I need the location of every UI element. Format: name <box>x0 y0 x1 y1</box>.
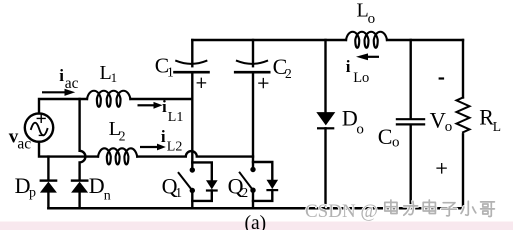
wire Do top <box>324 40 326 112</box>
node Q2 bottom dot <box>250 188 255 193</box>
diode DQ1 <box>206 180 218 189</box>
svg-text:L: L <box>493 119 501 134</box>
svg-text:ac: ac <box>65 75 79 92</box>
arrow i_Lo <box>366 56 379 58</box>
Vo minus <box>439 77 445 79</box>
wire Q1 bottom <box>191 191 193 209</box>
source vac circle <box>25 113 53 141</box>
wire node B vertical <box>252 72 254 169</box>
wire RL bottom <box>462 134 464 208</box>
capacitor plus marks <box>197 78 447 174</box>
node Q2 top dot <box>250 167 255 172</box>
diode DQ1 wiring <box>192 162 212 180</box>
svg-text:(a): (a) <box>245 213 267 230</box>
wire C1 top <box>191 40 193 66</box>
wire top rail left <box>192 39 346 41</box>
svg-text:i: i <box>346 57 351 76</box>
wire Dp to rail <box>47 193 49 209</box>
wire top rail right <box>387 39 463 41</box>
arrow i_L1 <box>138 104 154 106</box>
wire bottom rail <box>48 207 463 210</box>
watermark char 电 <box>385 200 397 214</box>
diode Dp <box>40 182 57 193</box>
node Q1 bottom dot <box>190 188 195 193</box>
inductor L1 <box>87 91 130 107</box>
capacitor C1 straight plate <box>175 71 209 74</box>
wire node A vertical <box>191 72 193 170</box>
C1 plus <box>197 78 207 88</box>
watermark char 电 <box>423 200 435 214</box>
wire Do bottom <box>324 128 326 208</box>
watermark char 子 <box>442 203 457 216</box>
capacitor C2 straight plate <box>235 71 269 74</box>
svg-text:L2: L2 <box>167 139 183 154</box>
capacitor Co plates <box>397 118 424 120</box>
capacitor C2 curved plate <box>237 61 267 64</box>
diode Do <box>316 112 335 125</box>
watermark char 子 <box>442 203 457 216</box>
svg-text:2: 2 <box>285 66 292 81</box>
C2 plus <box>258 78 268 88</box>
svg-text:D: D <box>89 173 105 198</box>
switch Q1 blade <box>179 173 193 191</box>
inductor L2 <box>98 148 137 164</box>
wire Dn to rail <box>78 193 80 209</box>
arrow i_ac <box>42 91 65 93</box>
wire vertical to Dn with bulge crossing <box>80 99 86 179</box>
diode Dn <box>71 182 88 193</box>
watermark char 电 <box>385 200 397 214</box>
wire Q2 bottom <box>252 190 254 208</box>
wire Co top <box>410 40 412 118</box>
svg-text:C: C <box>378 124 393 149</box>
svg-text:o: o <box>356 122 364 138</box>
wire L2 output with hop over node-A vertical <box>137 151 253 157</box>
watermark char 小 <box>461 201 476 215</box>
node Q1 top dot <box>190 167 195 172</box>
inductor Lo <box>346 32 387 48</box>
resistor RL zigzag <box>457 98 470 133</box>
svg-text:Lo: Lo <box>353 70 369 86</box>
wire RL top <box>462 40 464 98</box>
watermark CJK glyphs <box>385 200 495 216</box>
svg-text:V: V <box>430 108 446 133</box>
watermark char 哥 <box>481 202 495 217</box>
watermark band <box>0 222 513 231</box>
watermark char 力 <box>404 201 418 215</box>
switch Q2 blade <box>240 173 253 191</box>
svg-text:1: 1 <box>111 70 118 85</box>
svg-text:i: i <box>161 127 166 146</box>
svg-text:i: i <box>59 66 64 85</box>
svg-text:ac: ac <box>17 135 31 152</box>
wire L1 to node A <box>130 98 192 100</box>
watermark text CSDN <box>305 201 378 222</box>
svg-text:o: o <box>392 135 400 151</box>
source sine wave <box>31 123 47 136</box>
svg-text:2: 2 <box>119 128 126 143</box>
watermark char 小 <box>461 201 476 215</box>
wire source bottom <box>39 142 98 157</box>
svg-text:p: p <box>29 186 36 201</box>
source polarity marks <box>37 114 46 136</box>
svg-text:L1: L1 <box>168 110 184 125</box>
watermark char 力 <box>404 201 418 215</box>
arrow i_L2 <box>140 146 157 148</box>
diode DQ2 <box>267 180 279 189</box>
svg-text:CSDN @: CSDN @ <box>305 201 378 222</box>
watermark CJK glyphs white halo <box>385 200 495 216</box>
wire Co bottom <box>410 125 412 208</box>
svg-text:1: 1 <box>167 64 174 79</box>
svg-text:o: o <box>445 119 453 135</box>
svg-text:n: n <box>104 188 111 203</box>
wire top-left from source to L1 <box>39 99 87 113</box>
Vo plus <box>436 163 446 174</box>
capacitor C1 curved plate <box>176 61 206 64</box>
watermark char 电 <box>423 200 435 214</box>
svg-text:i: i <box>162 97 167 116</box>
wire C2 top <box>252 40 254 66</box>
svg-text:2: 2 <box>241 185 248 200</box>
wire Dp branch <box>47 157 49 180</box>
svg-text:o: o <box>368 11 376 27</box>
svg-text:1: 1 <box>175 185 182 200</box>
watermark char 哥 <box>481 202 495 217</box>
diode DQ2 wiring <box>253 162 272 180</box>
